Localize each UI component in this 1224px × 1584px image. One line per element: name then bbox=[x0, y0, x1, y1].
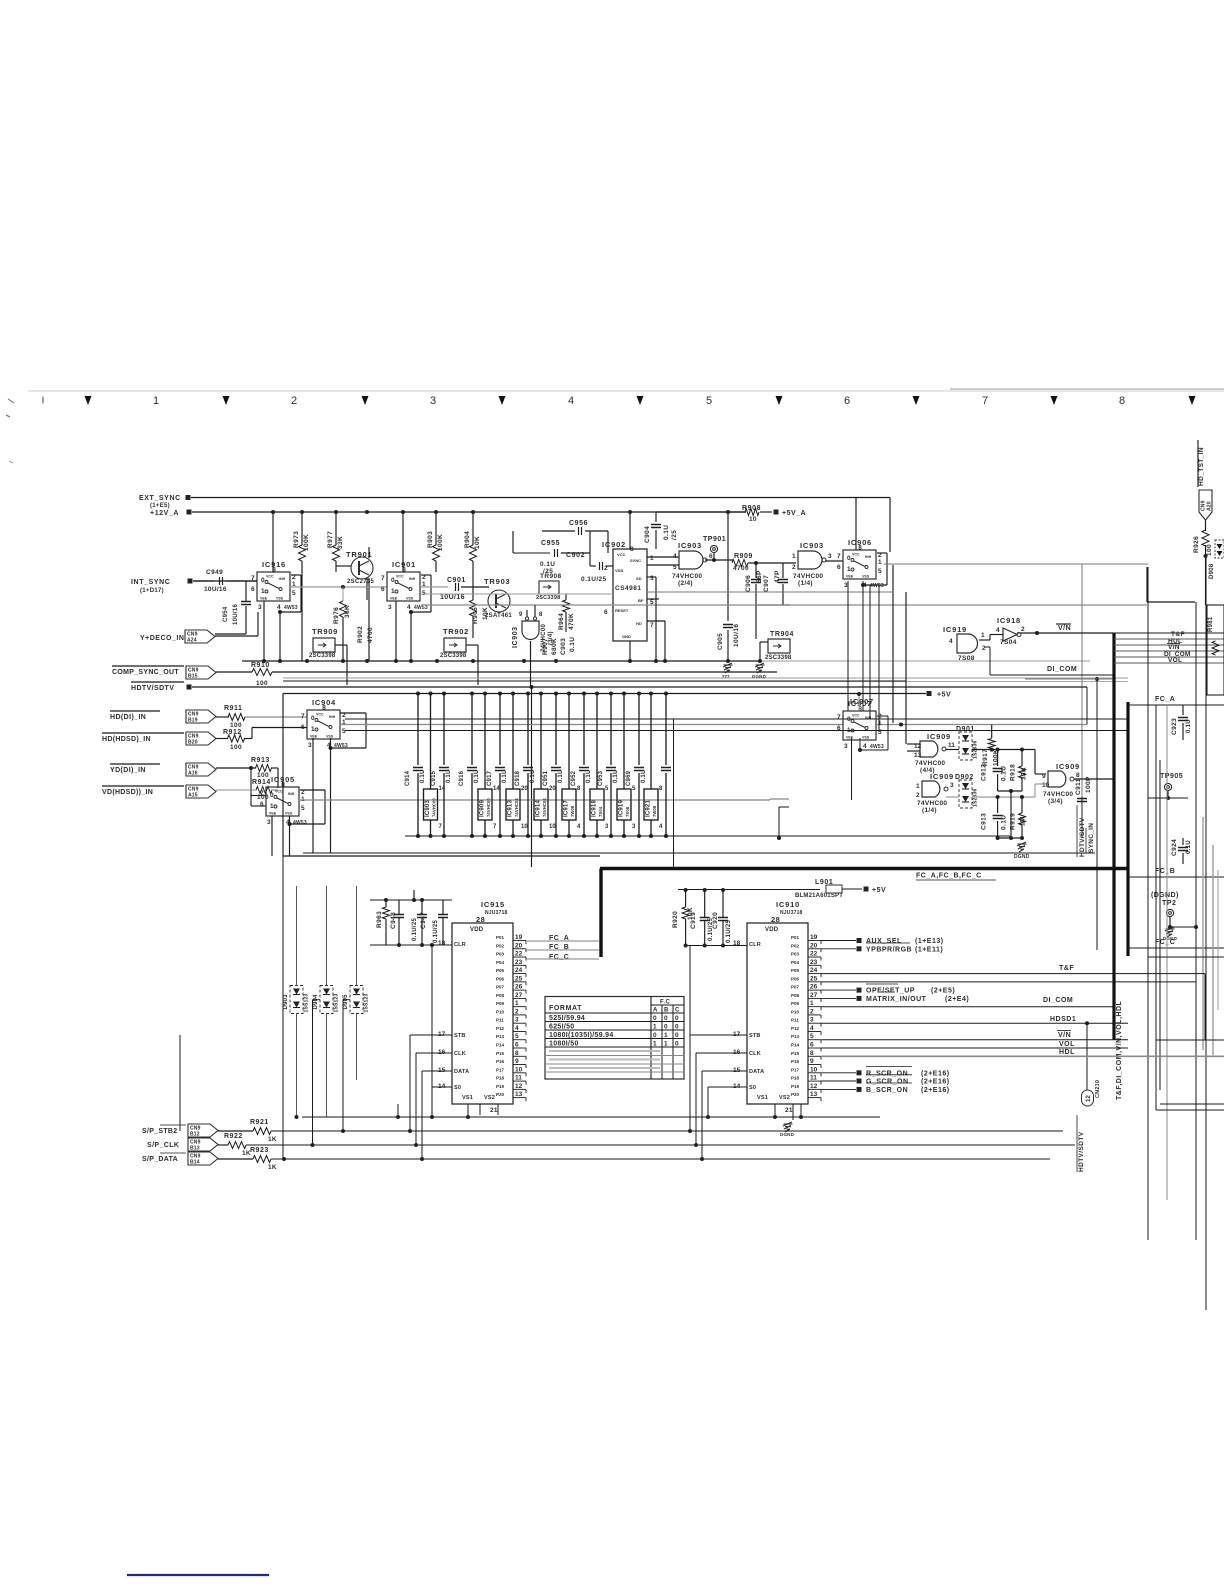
svg-text:5: 5 bbox=[515, 1033, 519, 1040]
svg-text:R926: R926 bbox=[1193, 536, 1200, 553]
svg-text:R963: R963 bbox=[376, 911, 383, 928]
svg-text:36K: 36K bbox=[344, 605, 351, 618]
svg-text:10U/16: 10U/16 bbox=[204, 586, 227, 593]
svg-text:P13: P13 bbox=[496, 1034, 505, 1039]
svg-text:DATA: DATA bbox=[749, 1069, 764, 1075]
svg-text:C969: C969 bbox=[626, 770, 632, 786]
svg-text:IC909: IC909 bbox=[480, 800, 486, 817]
svg-text:S0: S0 bbox=[749, 1085, 756, 1091]
diode pair D904 bbox=[320, 986, 333, 1014]
svg-text:R977: R977 bbox=[327, 531, 334, 548]
svg-text:IC915: IC915 bbox=[481, 900, 505, 909]
svg-text:22: 22 bbox=[810, 951, 818, 958]
svg-text:C919: C919 bbox=[690, 912, 697, 929]
svg-text:2SC3398: 2SC3398 bbox=[765, 655, 792, 661]
IC IC913 74VHC04 bbox=[511, 692, 515, 696]
svg-text:20: 20 bbox=[549, 786, 556, 792]
wire wires weaving to IC910 left pins bbox=[410, 1034, 452, 1036]
wire thick horizontal bus bbox=[600, 867, 1128, 870]
connector CN9/A20 bbox=[1199, 490, 1212, 520]
svg-text:5: 5 bbox=[878, 568, 882, 575]
svg-text:10U/16: 10U/16 bbox=[233, 603, 239, 625]
svg-text:100: 100 bbox=[257, 772, 269, 779]
svg-text:20: 20 bbox=[810, 942, 818, 949]
svg-text:R976: R976 bbox=[333, 607, 340, 624]
svg-text:0.1U/25: 0.1U/25 bbox=[433, 920, 439, 943]
svg-text:6: 6 bbox=[844, 395, 850, 407]
svg-text:Y+DECO_IN: Y+DECO_IN bbox=[140, 635, 184, 642]
svg-text:12: 12 bbox=[515, 1083, 523, 1090]
svg-text:IC903: IC903 bbox=[512, 626, 519, 648]
svg-text:6: 6 bbox=[810, 1042, 814, 1049]
svg-text:3: 3 bbox=[950, 782, 954, 789]
wire top bundle to right edge bbox=[1017, 632, 1224, 634]
svg-text:(2+E16): (2+E16) bbox=[921, 1070, 950, 1077]
resistor R973 bbox=[301, 512, 303, 545]
svg-text:P19: P19 bbox=[791, 1084, 800, 1089]
wire bottom rail of first stage bbox=[242, 660, 760, 662]
svg-text:RESET: RESET bbox=[615, 608, 629, 613]
svg-text:CLR: CLR bbox=[454, 942, 466, 948]
svg-text:TR902: TR902 bbox=[443, 627, 469, 636]
svg-text:6: 6 bbox=[837, 725, 841, 732]
svg-text:0: 0 bbox=[653, 1015, 657, 1022]
svg-text:21: 21 bbox=[490, 1107, 498, 1114]
svg-text:DGND: DGND bbox=[1014, 854, 1030, 860]
svg-text:0: 0 bbox=[653, 1032, 657, 1039]
ground bbox=[1166, 928, 1175, 930]
capacitor C951 0.1U bbox=[554, 692, 558, 696]
IC IC918 7S04 bbox=[595, 692, 599, 696]
svg-text:R912: R912 bbox=[223, 729, 242, 736]
svg-text:19: 19 bbox=[810, 934, 818, 941]
svg-text:FC_C: FC_C bbox=[1155, 939, 1175, 946]
svg-text:R920: R920 bbox=[672, 911, 679, 928]
svg-text:4: 4 bbox=[810, 1025, 814, 1032]
svg-text:C918: C918 bbox=[515, 770, 521, 786]
svg-text:R964: R964 bbox=[558, 613, 565, 630]
svg-text:R909: R909 bbox=[734, 553, 753, 560]
IC IC910 right side labels bbox=[821, 940, 856, 942]
svg-text:DI_COM: DI_COM bbox=[1047, 666, 1077, 673]
svg-text:VS2: VS2 bbox=[779, 1095, 790, 1101]
svg-text:P01: P01 bbox=[791, 935, 800, 940]
svg-text:9: 9 bbox=[515, 1058, 519, 1065]
svg-text:0.1U: 0.1U bbox=[569, 637, 576, 652]
connector CN9/B20 bbox=[186, 732, 216, 745]
svg-text:T&F: T&F bbox=[1171, 631, 1185, 638]
svg-text:R902: R902 bbox=[357, 626, 364, 643]
svg-text:S/P_DATA: S/P_DATA bbox=[142, 1156, 178, 1163]
svg-text:C947: C947 bbox=[420, 912, 427, 929]
svg-text:S/P_CLK: S/P_CLK bbox=[147, 1142, 179, 1149]
svg-text:INH: INH bbox=[279, 577, 286, 581]
svg-text:1: 1 bbox=[810, 1000, 814, 1007]
svg-text:B_SCR_ON: B_SCR_ON bbox=[866, 1087, 908, 1094]
resistor R981 bbox=[1207, 605, 1224, 695]
svg-text:VDD: VDD bbox=[470, 927, 484, 933]
svg-text:2: 2 bbox=[1021, 626, 1025, 633]
svg-text:2: 2 bbox=[792, 564, 796, 571]
svg-text:+12V_A: +12V_A bbox=[150, 510, 179, 517]
svg-text:P11: P11 bbox=[791, 1018, 799, 1023]
svg-text:7W08: 7W08 bbox=[652, 805, 657, 817]
svg-text:INT_SYNC: INT_SYNC bbox=[131, 579, 170, 586]
svg-text:F.C: F.C bbox=[660, 1000, 670, 1006]
svg-text:0: 0 bbox=[847, 555, 851, 562]
svg-text:0: 0 bbox=[311, 715, 315, 722]
svg-text:VSS: VSS bbox=[285, 812, 293, 816]
svg-text:26: 26 bbox=[810, 984, 818, 991]
svg-text:8: 8 bbox=[810, 1050, 814, 1057]
svg-text:1: 1 bbox=[653, 1041, 657, 1048]
capacitor C917 0.1U bbox=[498, 692, 502, 696]
ground bbox=[1018, 843, 1027, 845]
svg-text:0: 0 bbox=[675, 1041, 679, 1048]
svg-text:A16: A16 bbox=[188, 771, 198, 777]
svg-text:SYNC: SYNC bbox=[630, 558, 641, 563]
svg-text:1: 1 bbox=[664, 1032, 668, 1039]
svg-text:STB: STB bbox=[749, 1033, 761, 1039]
svg-text:1SS123: 1SS123 bbox=[334, 993, 340, 1012]
svg-text:13: 13 bbox=[515, 1091, 523, 1098]
svg-text:HDSD1: HDSD1 bbox=[1050, 1016, 1076, 1023]
svg-text:P03: P03 bbox=[496, 952, 505, 957]
svg-text:SD: SD bbox=[636, 576, 642, 581]
svg-text:P05: P05 bbox=[496, 968, 505, 973]
svg-text:C914: C914 bbox=[405, 770, 411, 786]
svg-text:A20: A20 bbox=[1207, 501, 1213, 511]
svg-text:22: 22 bbox=[515, 951, 523, 958]
svg-text:HD: HD bbox=[636, 621, 642, 626]
svg-text:2SC3398: 2SC3398 bbox=[536, 595, 560, 601]
svg-text:(1+D17): (1+D17) bbox=[140, 588, 164, 594]
svg-text:0: 0 bbox=[391, 577, 395, 584]
svg-text:HDTV/SDTV: HDTV/SDTV bbox=[131, 685, 174, 692]
svg-text:B15: B15 bbox=[188, 674, 198, 680]
svg-text:VCC: VCC bbox=[275, 790, 283, 794]
svg-text:YD(DI)_IN: YD(DI)_IN bbox=[110, 767, 146, 774]
svg-text:20: 20 bbox=[515, 942, 523, 949]
svg-text:1: 1 bbox=[153, 395, 159, 407]
connector CN9/B12 bbox=[188, 1124, 218, 1137]
svg-text:28: 28 bbox=[771, 915, 780, 924]
svg-text:VS1: VS1 bbox=[462, 1095, 473, 1101]
svg-text:5: 5 bbox=[810, 1033, 814, 1040]
svg-text:11: 11 bbox=[948, 742, 955, 749]
svg-text:(1+E11): (1+E11) bbox=[915, 946, 943, 953]
svg-text:R911: R911 bbox=[224, 705, 242, 712]
svg-text:3: 3 bbox=[844, 743, 848, 750]
svg-text:10: 10 bbox=[1042, 782, 1050, 789]
svg-text:7: 7 bbox=[982, 395, 988, 407]
svg-text:100K: 100K bbox=[993, 749, 1000, 766]
svg-text:0.1U: 0.1U bbox=[530, 770, 536, 783]
svg-text:C923: C923 bbox=[1171, 718, 1178, 735]
svg-text:C906: C906 bbox=[745, 575, 752, 592]
svg-text:23: 23 bbox=[515, 959, 523, 966]
svg-text:2SC3398: 2SC3398 bbox=[440, 653, 467, 659]
svg-text:3: 3 bbox=[828, 553, 832, 560]
svg-text:/25: /25 bbox=[671, 530, 678, 540]
svg-text:IC914: IC914 bbox=[536, 800, 542, 817]
svg-text:(3/4): (3/4) bbox=[1048, 798, 1063, 805]
svg-text:2: 2 bbox=[810, 1008, 814, 1015]
svg-text:27: 27 bbox=[810, 992, 818, 999]
svg-text:IC903: IC903 bbox=[678, 541, 702, 550]
svg-text:525I/59.94: 525I/59.94 bbox=[549, 1015, 585, 1022]
ground bbox=[784, 1123, 793, 1125]
svg-text:P06: P06 bbox=[791, 976, 800, 981]
svg-text:VEE: VEE bbox=[846, 575, 854, 579]
svg-text:GND: GND bbox=[622, 634, 631, 639]
svg-text:74VHC00: 74VHC00 bbox=[1043, 791, 1073, 798]
svg-text:7S04: 7S04 bbox=[1000, 639, 1017, 646]
svg-text:+5V: +5V bbox=[937, 692, 951, 699]
svg-text:D904: D904 bbox=[313, 994, 319, 1010]
svg-text:C902: C902 bbox=[566, 552, 585, 559]
svg-text:P06: P06 bbox=[496, 976, 505, 981]
IC IC919 7S08 bbox=[622, 692, 626, 696]
svg-text:P17: P17 bbox=[791, 1067, 800, 1072]
svg-text:VEE: VEE bbox=[269, 812, 277, 816]
svg-text:R921: R921 bbox=[250, 1119, 269, 1126]
svg-text:1SS123: 1SS123 bbox=[304, 993, 310, 1012]
svg-text:24: 24 bbox=[810, 967, 818, 974]
svg-text:27: 27 bbox=[515, 992, 523, 999]
wire thick vertical x=1114 bbox=[1112, 633, 1115, 1040]
svg-text:TR903: TR903 bbox=[484, 577, 511, 586]
svg-text:R917: R917 bbox=[982, 749, 989, 766]
svg-text:IC919: IC919 bbox=[619, 800, 625, 817]
diode pair 1S2836 bbox=[959, 732, 972, 760]
svg-text:6: 6 bbox=[301, 724, 305, 731]
resistor R964 bbox=[565, 594, 567, 600]
svg-text:10K: 10K bbox=[474, 536, 481, 549]
svg-text:VOL: VOL bbox=[1059, 1041, 1075, 1048]
svg-text:C949: C949 bbox=[206, 569, 223, 576]
svg-text:(2+E16): (2+E16) bbox=[921, 1087, 950, 1094]
svg-text:0.1U: 0.1U bbox=[420, 770, 426, 783]
svg-text:1: 1 bbox=[878, 559, 882, 566]
svg-text:+5V_A: +5V_A bbox=[782, 510, 806, 517]
wire long wires from IC910 right pins bbox=[821, 973, 1196, 975]
svg-text:21: 21 bbox=[785, 1107, 793, 1114]
diode pair D903 bbox=[290, 986, 303, 1014]
svg-text:74VHC04: 74VHC04 bbox=[542, 798, 547, 817]
capacitor C969 0.1U bbox=[637, 692, 641, 696]
svg-text:TR908: TR908 bbox=[540, 573, 562, 580]
svg-text:T&F: T&F bbox=[1059, 965, 1074, 972]
svg-text:IC903: IC903 bbox=[425, 800, 431, 817]
svg-text:7: 7 bbox=[381, 575, 385, 582]
svg-text:VCC: VCC bbox=[396, 575, 404, 579]
svg-text:TR904: TR904 bbox=[770, 631, 794, 638]
svg-text:VCC: VCC bbox=[266, 575, 274, 579]
resistor R977 bbox=[335, 512, 337, 545]
svg-text:C915: C915 bbox=[431, 770, 437, 786]
svg-text:V/N: V/N bbox=[1168, 644, 1180, 651]
IC IC903 (2/4) bbox=[679, 551, 703, 569]
svg-text:100: 100 bbox=[230, 722, 242, 729]
connector CN9/B19 bbox=[186, 710, 216, 723]
svg-text:5: 5 bbox=[292, 590, 296, 597]
svg-text:1S2836: 1S2836 bbox=[973, 789, 979, 807]
svg-text:4: 4 bbox=[515, 1025, 519, 1032]
svg-text:6: 6 bbox=[604, 609, 608, 616]
svg-text:V/N: V/N bbox=[1058, 625, 1071, 632]
svg-text:18: 18 bbox=[438, 940, 446, 947]
IC IC921 7W08 bbox=[649, 692, 653, 696]
svg-text:0.1U: 0.1U bbox=[502, 770, 508, 783]
svg-text:INH: INH bbox=[865, 555, 872, 559]
svg-text:(1+E13): (1+E13) bbox=[915, 938, 944, 945]
svg-text:1: 1 bbox=[847, 727, 851, 734]
svg-text:1: 1 bbox=[311, 726, 315, 733]
svg-text:1K: 1K bbox=[268, 1136, 277, 1143]
capacitor C918 0.1U bbox=[526, 692, 530, 696]
IC IC903 74VHC00 bbox=[429, 692, 433, 696]
svg-text:7S08: 7S08 bbox=[958, 655, 975, 662]
svg-text:0.1U: 0.1U bbox=[540, 561, 555, 568]
wire thick vertical at 601 bbox=[599, 869, 602, 958]
svg-text:P02: P02 bbox=[496, 943, 505, 948]
svg-text:HD_TST_IN: HD_TST_IN bbox=[1198, 447, 1205, 486]
svg-text:P01: P01 bbox=[496, 935, 505, 940]
svg-text:P04: P04 bbox=[496, 960, 505, 965]
svg-text:DI_COM: DI_COM bbox=[1043, 997, 1073, 1004]
ground bbox=[724, 664, 733, 666]
svg-text:P14: P14 bbox=[791, 1043, 800, 1048]
svg-text:5: 5 bbox=[878, 729, 882, 736]
svg-text:VSS: VSS bbox=[862, 575, 870, 579]
svg-text:3: 3 bbox=[430, 395, 436, 407]
svg-text:C913: C913 bbox=[981, 813, 988, 830]
svg-text:8: 8 bbox=[1076, 772, 1080, 779]
svg-text:(2+E4): (2+E4) bbox=[945, 996, 969, 1003]
svg-text:C956: C956 bbox=[569, 520, 588, 527]
svg-text:3: 3 bbox=[388, 604, 392, 611]
ground bbox=[756, 664, 765, 666]
svg-text:47P: 47P bbox=[774, 570, 781, 583]
svg-text:100P: 100P bbox=[1085, 776, 1092, 793]
svg-text:1SS123: 1SS123 bbox=[364, 993, 370, 1012]
svg-text:24: 24 bbox=[515, 967, 523, 974]
svg-text:VSS: VSS bbox=[406, 597, 414, 601]
svg-text:1: 1 bbox=[664, 1041, 668, 1048]
svg-text:10U/16: 10U/16 bbox=[733, 624, 740, 647]
svg-text:0.1U/25: 0.1U/25 bbox=[726, 920, 732, 943]
svg-text:10: 10 bbox=[521, 824, 528, 830]
ground bbox=[792, 1104, 794, 1120]
svg-text:7: 7 bbox=[650, 622, 654, 629]
svg-text:33K: 33K bbox=[337, 536, 344, 549]
svg-text:1: 1 bbox=[916, 783, 920, 790]
svg-text:8: 8 bbox=[858, 545, 862, 552]
svg-text:4: 4 bbox=[996, 627, 1000, 634]
svg-text:P12: P12 bbox=[496, 1026, 505, 1031]
svg-text:P20: P20 bbox=[496, 1092, 505, 1097]
resistor R905 bbox=[472, 587, 474, 600]
svg-text:B14: B14 bbox=[190, 1160, 200, 1166]
svg-text:CLK: CLK bbox=[454, 1051, 466, 1057]
svg-text:P16: P16 bbox=[496, 1059, 505, 1064]
svg-text:P07: P07 bbox=[791, 985, 800, 990]
svg-text:1: 1 bbox=[792, 553, 796, 560]
analog switch IC IC906 bbox=[843, 550, 876, 579]
svg-text:0.1U: 0.1U bbox=[446, 770, 452, 783]
svg-text:1080I/50: 1080I/50 bbox=[549, 1041, 579, 1048]
svg-text:7S04: 7S04 bbox=[598, 806, 603, 817]
svg-text:(2+E16): (2+E16) bbox=[921, 1079, 950, 1086]
svg-text:C920: C920 bbox=[712, 912, 719, 929]
svg-text:11: 11 bbox=[515, 1075, 522, 1082]
svg-text:CLR: CLR bbox=[749, 942, 761, 948]
CN210 bbox=[1086, 1023, 1088, 1090]
svg-text:STB: STB bbox=[454, 1033, 466, 1039]
svg-text:C903: C903 bbox=[560, 638, 567, 655]
svg-text:10: 10 bbox=[515, 1066, 523, 1073]
resistor R904 bbox=[472, 512, 474, 545]
analog switch IC IC916 bbox=[257, 572, 290, 601]
svg-text:25: 25 bbox=[810, 975, 818, 982]
svg-text:P05: P05 bbox=[791, 968, 800, 973]
svg-text:0: 0 bbox=[847, 716, 851, 723]
svg-text:0.1U: 0.1U bbox=[641, 770, 647, 783]
svg-text:P02: P02 bbox=[791, 943, 800, 948]
svg-text:74VHC00: 74VHC00 bbox=[541, 624, 547, 652]
svg-text:4W53: 4W53 bbox=[284, 605, 298, 611]
svg-text:HDTV/SDTV: HDTV/SDTV bbox=[1079, 817, 1086, 857]
svg-text:8: 8 bbox=[322, 705, 326, 712]
svg-text:P09: P09 bbox=[496, 1001, 505, 1006]
svg-text:(1/4): (1/4) bbox=[798, 580, 813, 587]
svg-text:13: 13 bbox=[914, 752, 922, 759]
svg-text:OPE/SET_UP: OPE/SET_UP bbox=[866, 988, 915, 995]
svg-text:C904: C904 bbox=[644, 526, 651, 543]
svg-text:C924: C924 bbox=[1171, 839, 1178, 856]
svg-text:1: 1 bbox=[270, 803, 274, 810]
svg-text:TR909: TR909 bbox=[312, 627, 338, 636]
svg-text:12: 12 bbox=[810, 1083, 818, 1090]
svg-text:VCC: VCC bbox=[852, 714, 860, 718]
svg-text:(2+E5): (2+E5) bbox=[931, 988, 955, 995]
svg-text:P10: P10 bbox=[496, 1009, 505, 1014]
svg-text:0.1U: 0.1U bbox=[558, 770, 564, 783]
connector CN9/B13 bbox=[188, 1138, 218, 1151]
svg-text:4W53: 4W53 bbox=[293, 820, 307, 826]
connector CN9/A16 bbox=[186, 763, 216, 776]
svg-text:2: 2 bbox=[878, 713, 882, 720]
svg-text:P15: P15 bbox=[791, 1051, 800, 1056]
svg-text:INH: INH bbox=[865, 716, 872, 720]
svg-text:C953: C953 bbox=[598, 770, 604, 786]
svg-text:COMP_SYNC_OUT: COMP_SYNC_OUT bbox=[112, 669, 179, 676]
svg-text:4: 4 bbox=[568, 395, 574, 407]
svg-text:P15: P15 bbox=[496, 1051, 505, 1056]
svg-text:R904: R904 bbox=[464, 531, 471, 548]
svg-text:FC_A: FC_A bbox=[1155, 696, 1175, 703]
wire main verticals bbox=[1147, 567, 1149, 1240]
svg-text:P11: P11 bbox=[496, 1018, 504, 1023]
wire V/N wire to bus bbox=[1021, 632, 1113, 634]
svg-text:4700: 4700 bbox=[367, 627, 374, 643]
svg-text:|: | bbox=[42, 397, 44, 404]
svg-text:CLK: CLK bbox=[749, 1051, 761, 1057]
svg-text:VSS: VSS bbox=[326, 735, 334, 739]
svg-text:1K: 1K bbox=[268, 1164, 277, 1171]
svg-text:MATRIX_IN/OUT: MATRIX_IN/OUT bbox=[866, 996, 927, 1003]
